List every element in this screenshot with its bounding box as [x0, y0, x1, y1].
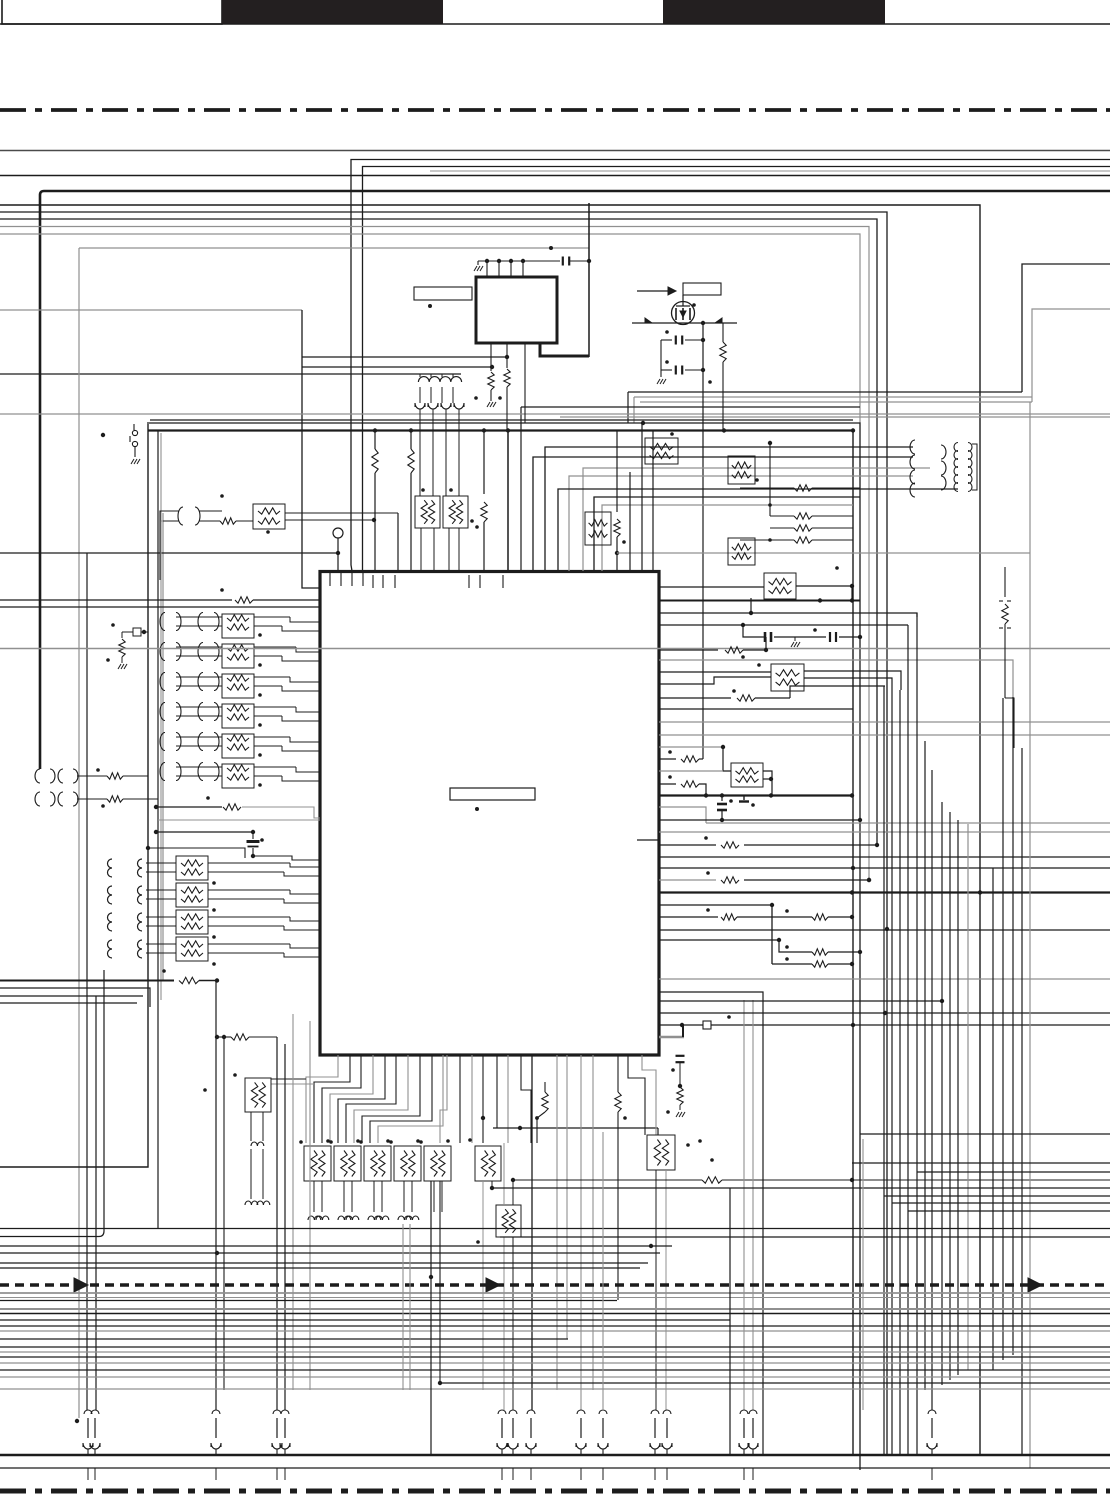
pin1 mark U1	[637, 839, 659, 841]
label box IC2	[414, 287, 472, 300]
filter row H4	[108, 937, 321, 966]
filter row A	[160, 494, 398, 580]
label dot IC2	[428, 304, 432, 308]
RN L bottom wires	[421, 488, 474, 571]
wire stair t10	[614, 431, 626, 571]
resistor network RN ll	[203, 1073, 271, 1205]
pin y880 res	[659, 871, 871, 883]
resistor R left gnd	[106, 623, 146, 669]
pin y759 res	[659, 750, 703, 762]
resistor network RN t2	[585, 512, 611, 545]
resistor R ll	[215, 1034, 277, 1390]
coil cut row L6	[415, 387, 464, 409]
pin y807	[659, 807, 706, 823]
wire right D2	[634, 396, 1032, 398]
wire bus A2	[351, 160, 1110, 572]
filter row H1	[108, 856, 321, 885]
wire top right C2	[1032, 309, 1110, 402]
coil cluster wires	[972, 444, 977, 490]
wire stair t11	[629, 472, 631, 571]
wire bus B1	[0, 205, 980, 1455]
wire mid E5	[302, 366, 492, 368]
resistor network RN r3	[728, 456, 755, 484]
pin y845 res	[659, 836, 877, 848]
wire stair t13	[652, 431, 654, 571]
pin y832	[659, 831, 1110, 833]
pin y1001	[659, 999, 944, 1003]
wire gray y823	[706, 822, 1110, 824]
resistor network RN2	[329, 1139, 361, 1220]
ferrite bead FB left	[122, 628, 148, 638]
wire gray E8	[560, 416, 1110, 418]
wire right D1	[628, 391, 1022, 393]
capacitor C qb	[661, 360, 705, 374]
wire stair t2	[507, 430, 509, 571]
wire v398	[397, 513, 399, 571]
filter row G6	[160, 763, 320, 789]
label box U1	[450, 788, 535, 800]
wire y1003	[0, 1002, 137, 1004]
wire bus A3	[363, 167, 1110, 572]
wire bus B4	[0, 227, 869, 881]
source drain wire Q1	[632, 318, 737, 323]
pin y917 res	[659, 908, 854, 920]
capacitor C left	[247, 832, 264, 858]
wire horiz y553	[0, 552, 338, 554]
wire x730	[729, 1188, 731, 1455]
wire y807	[154, 796, 320, 818]
resistor R b3	[511, 1158, 1110, 1183]
wire stair t3	[545, 447, 913, 571]
wire bus A1	[0, 150, 1110, 152]
resistor network RN4	[389, 1139, 421, 1220]
wire bus above dash b	[0, 970, 1110, 1237]
pin y820	[659, 818, 862, 822]
page fold border bottom	[0, 1489, 1110, 1494]
IC2 bottom pin b	[504, 343, 510, 430]
wire bus above dash f	[0, 1267, 640, 1269]
wire left E1	[0, 309, 302, 311]
wire mid E4	[302, 356, 507, 358]
vertical wires to bottom connectors	[403, 1132, 863, 1455]
label dot U1	[475, 807, 479, 811]
pin y672 box	[659, 663, 771, 672]
right vertical bus	[884, 402, 1030, 1468]
right grid dots	[850, 843, 982, 1182]
wire x217	[215, 980, 217, 1410]
pin y650 res	[659, 637, 768, 659]
resistor box RB6	[468, 1138, 501, 1390]
resistor network RN La	[415, 496, 440, 528]
pin y868	[659, 866, 1110, 870]
wire F1	[150, 419, 853, 421]
pin y857	[659, 856, 1110, 858]
bus junction dots	[75, 1275, 433, 1423]
test point circle	[333, 528, 343, 571]
resistor network RN r1	[764, 566, 854, 600]
filter row H3	[108, 910, 321, 939]
wire stair t4	[533, 457, 913, 571]
wire r trio b	[779, 940, 862, 955]
pin y735	[659, 734, 1110, 736]
wire r trio c	[772, 957, 854, 967]
wire left E3	[0, 373, 461, 375]
pin y930	[659, 929, 1110, 931]
wire stub D4	[627, 392, 629, 423]
capacitor C top	[563, 257, 591, 266]
resistor R b4	[666, 1087, 685, 1117]
wire left box x148	[0, 424, 148, 1167]
resistor box RB7	[647, 1135, 702, 1410]
wire bus above dash d	[0, 1251, 660, 1255]
switch S1	[101, 424, 140, 464]
pin y709	[659, 708, 853, 710]
wire left tall x96	[95, 996, 97, 1410]
wire stub D5	[633, 397, 635, 423]
wire bus A3b	[430, 170, 1110, 172]
wire bus A5 thick	[40, 191, 1110, 769]
wire bus B3	[0, 219, 877, 845]
capacitor C qa	[661, 330, 705, 344]
wire right D3	[640, 401, 1032, 403]
U1 bottom fanout left	[306, 1055, 443, 1143]
wires below L6	[420, 409, 459, 496]
wire top right C1	[1022, 264, 1110, 392]
bottom rail thin	[0, 1467, 1110, 1469]
resistor network RN r4	[728, 538, 755, 565]
wire left tall x87	[86, 553, 88, 1410]
wire Q1 right leg	[702, 323, 704, 759]
wire left tall x79	[78, 248, 80, 1418]
filter row G1	[160, 613, 320, 639]
title block bar 1	[222, 0, 443, 24]
wire F2	[147, 423, 860, 1470]
wire y856	[253, 856, 320, 860]
capacitor C r6	[717, 796, 733, 823]
wire r cluster	[768, 441, 772, 516]
capacitor C r5	[762, 628, 862, 647]
resistor network RN5	[419, 1139, 451, 1212]
pin y771	[659, 771, 753, 1410]
wire y820 gray	[158, 819, 320, 821]
U1 bottom fanout mid	[440, 1055, 508, 1143]
coil row L5	[418, 374, 461, 382]
pin y600 thick	[659, 598, 860, 602]
transistor Q1	[672, 295, 695, 325]
label box Q1	[683, 283, 721, 295]
pin y613	[659, 598, 917, 617]
resistor R r7	[768, 525, 853, 542]
wire y848	[146, 846, 245, 858]
wire stair t8	[594, 497, 860, 571]
pin y940	[659, 938, 781, 942]
wire stair t7	[558, 489, 958, 571]
wire stair t5	[583, 468, 930, 571]
gate arrow Q1	[637, 287, 676, 295]
wire v411	[408, 430, 414, 571]
pin y697 res	[659, 686, 804, 701]
resistor box RB8	[476, 1143, 521, 1410]
resistor R r8	[740, 537, 853, 543]
regulator IC2 body	[476, 277, 557, 343]
pin y625	[659, 623, 908, 637]
wire gray y248	[79, 246, 589, 250]
left coil pair rows	[35, 768, 158, 808]
wire fan to RNll	[271, 1079, 314, 1084]
resistor R q	[708, 323, 726, 430]
capacitor C b	[671, 1055, 684, 1088]
wire nest right low	[492, 1134, 1110, 1211]
resistor network RN1	[299, 1139, 331, 1220]
wire stair t9	[602, 505, 853, 571]
wire thick gray u1br	[659, 1025, 684, 1037]
wire x285	[284, 1044, 286, 1410]
resistor R b1	[535, 1082, 548, 1143]
wire stair t6	[569, 476, 913, 571]
U1 top pin stubs	[330, 572, 503, 589]
wire y600	[0, 588, 320, 603]
filter row G2	[160, 643, 320, 669]
wire gray E7	[0, 413, 1110, 415]
wire bus B5	[0, 234, 860, 423]
wire y648 gray	[0, 648, 1110, 650]
filter row G5	[160, 733, 320, 759]
wire y988	[0, 988, 150, 1007]
resistor R t1	[475, 502, 487, 571]
pin y992	[659, 992, 763, 1455]
pin y905	[659, 903, 774, 964]
wire left x163	[162, 513, 164, 980]
junction dots F	[373, 421, 855, 433]
wire v375	[372, 430, 378, 571]
wire stair t1	[483, 430, 485, 494]
wire IC2 thick L	[540, 203, 589, 357]
filter row G3	[160, 673, 320, 699]
wire bus A4	[0, 175, 1110, 177]
pin y784 res	[659, 775, 706, 795]
pin y979	[659, 978, 1110, 980]
resistor network RN t	[645, 432, 678, 464]
wire bus B2	[0, 212, 887, 1455]
pin y660	[659, 660, 1013, 697]
wire y1128	[493, 1126, 658, 1135]
wire gray E6	[521, 407, 860, 571]
pin y747	[659, 745, 744, 1410]
signal flow dashed arrow	[0, 1278, 1110, 1292]
wire bus above dash a	[0, 1228, 1110, 1230]
IC2 bottom pin c	[524, 343, 526, 423]
wire bus above dash c	[0, 1244, 672, 1248]
pin y684	[659, 677, 771, 684]
pin y795 thick	[659, 793, 854, 797]
wire stair t12	[641, 423, 643, 571]
resistor R r6	[768, 503, 853, 519]
filter row H2	[108, 883, 321, 912]
title block left cell	[2, 0, 222, 24]
wire gray y553r	[617, 552, 1030, 554]
connector pin square	[659, 1015, 1110, 1029]
resistor R r5	[740, 478, 860, 491]
wire Q1 left leg	[657, 340, 666, 384]
IC2 top pins	[474, 259, 560, 277]
resistor network RN r2	[771, 664, 901, 691]
wire left box x158	[158, 430, 161, 1229]
resistor network RN r5	[731, 763, 773, 807]
wire x277	[277, 1014, 310, 1410]
wire y996	[0, 995, 143, 997]
dot Q1	[692, 303, 705, 325]
pin y1013	[659, 1011, 1110, 1015]
wire vert E2	[302, 310, 320, 588]
pin y722	[659, 721, 1110, 723]
resistor network RN Lb	[443, 496, 468, 528]
title block bar 2	[663, 0, 885, 24]
bottom rail thick	[0, 1454, 1110, 1456]
page fold border top	[0, 108, 1110, 112]
IC2 bottom pin a	[474, 343, 502, 407]
resistor network RN3	[359, 1139, 391, 1220]
microcontroller U1 body	[320, 572, 659, 1056]
resistor R b2	[615, 1055, 627, 1300]
pin y587	[659, 586, 764, 588]
wire F3 thick	[148, 431, 853, 1456]
wire y832	[154, 830, 255, 834]
coil cluster right	[910, 440, 972, 497]
wire y980 thick	[0, 969, 219, 984]
wire bus below dash	[0, 1293, 1110, 1389]
wire y607	[0, 606, 320, 608]
resistor R trim	[999, 567, 1014, 748]
title block baseline	[0, 23, 1110, 25]
filter row G4	[160, 703, 320, 729]
U1 bottom fanout right	[521, 1055, 656, 1410]
bottom connector coils	[83, 1410, 937, 1480]
wire bus above dash e	[0, 1262, 648, 1264]
pin y892 thick	[659, 890, 1110, 894]
